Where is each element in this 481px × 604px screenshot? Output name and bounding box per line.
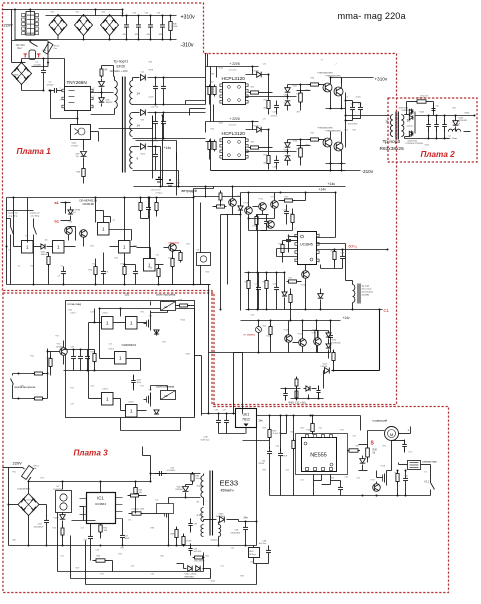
resistor R ucc4: [333, 250, 336, 262]
svg-text:1: 1: [130, 409, 133, 414]
svg-text:C3: C3: [18, 266, 20, 268]
svg-text:mma- mag 220a: mma- mag 220a: [338, 11, 407, 21]
wire ucc bottom verticals: [305, 289, 307, 310]
resistor R ucc1: [283, 199, 295, 202]
svg-text:VD33: VD33: [293, 141, 298, 143]
svg-text:R94: R94: [263, 470, 266, 472]
capacitor C top ee: [155, 471, 167, 476]
svg-text:ST150S20 ST150S20: ST150S20 ST150S20: [406, 143, 423, 145]
svg-text:R74: R74: [163, 342, 166, 344]
svg-text:R35: R35: [245, 282, 248, 284]
svg-text:C44: C44: [345, 477, 348, 479]
wire gates row3: [89, 398, 102, 400]
wire bottom rail ee: [9, 545, 257, 547]
wire below fan: [194, 188, 214, 190]
wire ee33 extra: [150, 456, 152, 474]
svg-text:1: 1: [26, 245, 29, 250]
wire ic1 fb link: [80, 506, 84, 508]
svg-text:VD15: VD15: [211, 581, 216, 583]
svg-text:1 Ом 5шт 1206: 1 Ом 5шт 1206: [131, 509, 146, 511]
IC1 UC3844: [87, 493, 116, 524]
svg-text:DD3.4: DD3.4: [103, 389, 108, 391]
board outline Plata 3: [3, 293, 449, 593]
diode VD9 out2: [133, 112, 140, 114]
svg-text:15v: 15v: [76, 156, 79, 158]
svg-text:C47: C47: [273, 112, 276, 114]
wire mosfet source: [168, 521, 170, 546]
transformer T4 sec2: [201, 525, 204, 537]
wire 14v lower: [291, 320, 341, 322]
button loop wires: [13, 373, 48, 375]
wire 555 bottom: [270, 495, 431, 497]
svg-text:R14: R14: [115, 258, 118, 260]
svg-text:VD10: VD10: [141, 154, 146, 156]
wire +14u rail: [134, 186, 346, 188]
resistor R3: [82, 167, 85, 179]
fan resistor: [215, 205, 227, 208]
resistor R40: [191, 472, 194, 483]
switch button: [11, 379, 14, 385]
wire opto to right: [91, 131, 99, 133]
svg-text:DD3.2: DD3.2: [103, 313, 108, 315]
svg-text:C21: C21: [141, 72, 144, 74]
resistor R24: [99, 523, 102, 534]
svg-text:Rел: Rел: [18, 47, 23, 50]
transistor VT11: [259, 203, 267, 211]
transformer T1 primary winding: [115, 81, 118, 109]
svg-text:C23: C23: [263, 64, 266, 66]
svg-text:VD43: VD43: [420, 112, 425, 114]
wire igbt collectors cell2: [330, 132, 332, 139]
resistor R fan2: [219, 191, 222, 202]
wire feedback long2: [71, 578, 211, 580]
wire long vertical v1: [205, 54, 207, 67]
svg-text:нагрузка: нагрузка: [169, 242, 180, 245]
wire bundle vertical vA: [208, 285, 210, 414]
capacitor C39: [188, 519, 193, 531]
svg-text:220V: 220V: [13, 461, 23, 466]
gate DD2.3: [115, 352, 127, 365]
svg-text:8: 8: [319, 234, 320, 236]
svg-text:VT10: VT10: [244, 203, 249, 205]
capacitor C46 edge: [283, 389, 288, 401]
wire cell2 mid: [268, 130, 270, 154]
resistor R1om: [130, 512, 143, 515]
svg-text:2: 2: [336, 64, 337, 66]
capacitor C48: [266, 546, 271, 558]
resistor R motor1: [396, 472, 399, 484]
svg-text:R12: R12: [91, 246, 94, 248]
wire left col: [293, 459, 295, 496]
hanging resistor mid rail 2: [155, 201, 158, 213]
svg-text:1N4148: 1N4148: [41, 254, 49, 256]
svg-text:R92: R92: [383, 446, 386, 448]
opto box ee33: [157, 504, 174, 514]
gate DD2.2: [126, 317, 138, 330]
svg-text:1: 1: [102, 227, 105, 232]
output diode VD40: [405, 114, 411, 116]
fuse FU2: [21, 466, 33, 480]
svg-text:15v: 15v: [73, 212, 76, 214]
boot diode VD cell1: [246, 74, 269, 76]
mosfet VT ee33: [168, 506, 170, 521]
filter cap C41: [426, 120, 431, 132]
relay RL1 contacts block: [22, 12, 39, 36]
svg-text:C40: C40: [177, 180, 180, 182]
wire relay top connect: [29, 10, 31, 12]
svg-text:C4: C4: [113, 220, 115, 222]
wire ladder v3: [176, 141, 178, 196]
gate DD1.4: [119, 241, 131, 254]
svg-text:DD-HEF4013B: DD-HEF4013B: [80, 199, 98, 203]
wire cluster links: [296, 391, 298, 399]
capacitor C mid3: [133, 267, 138, 279]
boot diode VD cell2: [246, 129, 269, 131]
transistor VT15: [299, 339, 307, 347]
svg-text:Тр-ток2: Тр-ток2: [362, 286, 370, 288]
svg-text:Ом: Ом: [54, 48, 58, 50]
transformer T4 core: [209, 471, 211, 536]
svg-text:R73: R73: [56, 336, 59, 338]
gate DD2.1: [102, 317, 114, 330]
transistor VT13 below ucc: [302, 271, 310, 279]
wire board inner: [99, 309, 101, 359]
transformer T4 EE33 primary: [201, 476, 204, 498]
wire 22V rail cell2: [206, 121, 259, 123]
svg-text:+14u: +14u: [164, 146, 172, 150]
svg-text:R38: R38: [151, 528, 154, 530]
wire vd29 drop: [323, 371, 325, 389]
svg-text:C41 10n 1kv: C41 10n 1kv: [151, 190, 161, 192]
resistor R31: [347, 449, 360, 452]
svg-text:R29: R29: [263, 428, 266, 430]
transformer T2 core: [395, 112, 397, 140]
wire ne555 left web: [286, 416, 288, 434]
svg-text:36: 36: [385, 120, 389, 124]
ground cluster caps: [156, 179, 163, 181]
svg-text:NTC: NTC: [41, 478, 46, 480]
resistor R30: [366, 446, 370, 459]
wire mid to ucc area: [194, 196, 241, 198]
svg-text:SB1: SB1: [21, 386, 25, 388]
capacitor C38: [160, 20, 165, 32]
svg-text:1u/1.6kV: 1u/1.6kV: [194, 551, 202, 553]
transistor VT 555b: [373, 484, 381, 492]
svg-text:VD38: VD38: [284, 95, 289, 97]
transformer T1 core: [122, 77, 124, 173]
svg-text:R37: R37: [289, 278, 292, 280]
svg-text:EE33: EE33: [220, 479, 239, 488]
wire out2 jog: [189, 109, 191, 116]
snubber resistor: [100, 67, 103, 78]
hanging resistor mid rail 1: [139, 201, 142, 213]
svg-text:R100 1Ом: R100 1Ом: [418, 98, 428, 100]
svg-text:VD51: VD51: [186, 354, 191, 356]
thermostat switch SA1: [10, 219, 12, 227]
svg-text:R49: R49: [211, 74, 214, 76]
relay contact switch: [30, 42, 38, 47]
svg-text:кнопка на горелке: кнопка на горелке: [15, 386, 36, 389]
transistor VT4 mid: [80, 230, 88, 238]
svg-text:C22 100n: C22 100n: [229, 70, 237, 72]
resistor 470 5w cell1: [299, 91, 303, 104]
wire dark return horiz: [332, 370, 380, 372]
wire board bottom stub: [120, 418, 122, 431]
resistor R mid5: [171, 257, 174, 269]
thermostat switch SA2: [33, 219, 35, 227]
resistor R mid2: [94, 265, 97, 277]
wire thermo connects: [7, 218, 11, 220]
wire mosfet drain: [168, 498, 170, 506]
svg-text:UC3845: UC3845: [300, 243, 313, 247]
resistor R42 load: [249, 548, 260, 558]
lower small cluster resistor: [295, 377, 298, 388]
svg-text:R4: R4: [26, 236, 28, 238]
capacitor C mid2: [101, 267, 106, 279]
wire m caps top: [64, 349, 88, 351]
svg-text:VT9: VT9: [81, 236, 84, 238]
wire TNY source down: [77, 111, 79, 119]
svg-text:47 ф0.3: 47 ф0.3: [197, 485, 204, 488]
svg-text:VD32: VD32: [293, 86, 298, 88]
wire gate row: [14, 246, 22, 248]
svg-text:C28: C28: [341, 253, 344, 255]
wire plata2 bottom: [405, 138, 450, 140]
wire ladder v1: [152, 116, 154, 179]
wire t4 sec out: [204, 519, 217, 521]
svg-text:100P: 100P: [125, 538, 130, 540]
capacitor C41b: [278, 449, 283, 461]
capacitor C motor: [402, 440, 407, 452]
svg-text:HCPL3120: HCPL3120: [222, 76, 246, 82]
svg-text:C50: C50: [436, 106, 439, 108]
wire motor connects: [368, 430, 385, 432]
bridge rectifier VD2 mains: [75, 15, 93, 36]
capacitor C1 bulk: [41, 66, 46, 78]
wire to main transformer: [346, 115, 390, 117]
zener VD7: [81, 152, 87, 157]
wire 555 v1: [280, 416, 282, 451]
svg-text:Тр-порт1: Тр-порт1: [114, 60, 129, 64]
svg-text:C24: C24: [283, 210, 286, 212]
capacitor C36b: [216, 416, 221, 428]
svg-text:220nF: 220nF: [259, 463, 265, 465]
svg-text:R46+ C32 + 80c: R46+ C32 + 80c: [289, 402, 307, 405]
svg-text:R31: R31: [291, 214, 294, 216]
wire AC vertical from 220V: [14, 10, 16, 41]
diode VD k3: [154, 410, 159, 414]
wire C1 run: [246, 309, 383, 311]
svg-text:K1.1: K1.1: [409, 452, 413, 454]
svg-text:2000НМ: 2000НМ: [362, 295, 370, 297]
input resistor R2 cell1: [213, 85, 216, 97]
svg-text:VT16: VT16: [312, 333, 317, 335]
wire feedback long3: [86, 584, 257, 586]
svg-text:K1: K1: [9, 250, 11, 252]
svg-text:C44: C44: [91, 386, 94, 388]
svg-text:CD4013B: CD4013B: [83, 202, 95, 206]
filter cap C42: [434, 120, 439, 132]
svg-text:VD31: VD31: [219, 123, 224, 125]
wire cd4013 outputs: [104, 216, 111, 218]
wire opto connections: [77, 119, 79, 125]
board outline mma-mag: [66, 301, 195, 418]
svg-text:C11: C11: [156, 255, 159, 257]
svg-text:R34: R34: [331, 251, 334, 253]
wire NTC to bridge: [47, 63, 49, 67]
svg-text:BC807: BC807: [57, 346, 64, 348]
capacitor C21: [120, 531, 125, 543]
svg-text:+14v: +14v: [319, 188, 327, 192]
svg-text:VD30: VD30: [219, 68, 224, 70]
wire feedback long1: [58, 571, 204, 573]
svg-text:C10: C10: [121, 13, 124, 15]
wire cap bank top rail: [46, 15, 177, 17]
wire ic1 top supply: [100, 482, 102, 493]
svg-text:C36: C36: [145, 13, 148, 15]
bridge rectifier VD1 mains: [49, 15, 67, 36]
svg-text:R55: R55: [264, 100, 267, 102]
svg-text:DD4: DD4: [69, 310, 73, 312]
resistor R lower2: [315, 329, 318, 341]
svg-text:Тр-пор3: Тр-пор3: [383, 139, 401, 145]
svg-text:R26: R26: [206, 272, 209, 274]
capacitor C2: [50, 88, 62, 93]
current transformer T3: [353, 285, 355, 303]
wire igbt emitters cell2: [330, 147, 332, 164]
transformer T4 sec1: [201, 508, 204, 522]
diode VD16 out: [220, 517, 225, 523]
wire igbt emitters cell1: [330, 92, 332, 109]
gate resistor R56 cell2: [309, 138, 321, 141]
igbt Q2 FGH40N60SFD: [334, 87, 343, 96]
svg-text:C17: C17: [81, 528, 84, 530]
svg-text:R15: R15: [134, 246, 137, 248]
wire ucc mids: [249, 230, 293, 232]
svg-text:EF20: EF20: [117, 65, 126, 69]
svg-text:ST150S20: ST150S20: [459, 120, 468, 122]
board outline Plata 2: [388, 98, 477, 162]
svg-text:термостат: термостат: [8, 213, 18, 215]
svg-text:VD22: VD22: [54, 518, 60, 520]
zener VD a1: [68, 210, 73, 214]
svg-text:C20: C20: [96, 550, 99, 552]
wire a1 b1 stubs: [61, 202, 71, 204]
resistor R m1: [93, 352, 96, 364]
wire gates row1: [89, 322, 102, 324]
wire bundle horiz: [209, 352, 243, 354]
svg-text:24v: 24v: [259, 419, 264, 423]
wire to opto u7: [62, 482, 64, 490]
svg-text:ТВСТ498ГС: ТВСТ498ГС: [348, 124, 359, 126]
wire mains down-left: [11, 10, 13, 63]
svg-text:C40: C40: [276, 446, 279, 448]
svg-text:5: 5: [94, 96, 95, 98]
inductor L2 out: [449, 129, 461, 131]
wire +14v rail ucc: [241, 192, 336, 194]
svg-text:R52: R52: [47, 358, 50, 360]
zener VD35: [326, 344, 331, 348]
transformer T2 secondary: [401, 115, 404, 137]
svg-text:R36: R36: [263, 282, 266, 284]
svg-text:HL2: HL2: [263, 326, 266, 328]
fan transistor VT1: [229, 199, 237, 207]
resistor R above 555: [311, 422, 314, 434]
wire ucc stub: [262, 211, 264, 215]
svg-text:ветродуй: ветродуй: [182, 189, 197, 193]
svg-text:+: +: [408, 429, 410, 433]
svg-text:CD4093US: CD4093US: [122, 343, 137, 347]
svg-text:VD39: VD39: [284, 150, 289, 152]
input resistor R2 cell2: [213, 140, 216, 152]
wire 555 top link: [331, 415, 361, 417]
wire k1: [399, 464, 408, 466]
wire AC top rail: [12, 9, 123, 11]
wire ne555 area link: [243, 440, 270, 442]
svg-text:R93: R93: [331, 478, 334, 480]
wire ic top cell1: [252, 67, 254, 75]
svg-text:mma-mag: mma-mag: [68, 302, 82, 306]
svg-text:/nнF 2шт: /nнF 2шт: [201, 440, 210, 442]
wire vt2: [55, 351, 60, 353]
svg-text:SF28: SF28: [149, 70, 154, 72]
input resistor R cell1: [208, 85, 211, 97]
svg-text:К2.1: К2.1: [425, 481, 430, 484]
wire igbt collectors cell1: [330, 78, 332, 84]
wire ee33 primary top: [151, 473, 201, 475]
diode VD10 out3: [133, 146, 140, 148]
wire lower cluster: [317, 346, 319, 353]
svg-text:R18: R18: [149, 268, 152, 270]
diode VD13: [183, 487, 189, 492]
wire AC second rail: [12, 40, 48, 42]
svg-text:4700u/35V: 4700u/35V: [231, 533, 241, 535]
capacitor C 555g: [338, 483, 343, 495]
svg-text:VT1: VT1: [237, 196, 240, 198]
wire extra ucc cluster: [249, 218, 275, 220]
svg-text:C42: C42: [231, 548, 234, 550]
switch K2.1: [430, 479, 432, 483]
resistor row R39: [129, 494, 141, 497]
gate resistor R56 cell1: [309, 83, 321, 86]
comb extra zener: [282, 292, 287, 296]
wire plata2 out plus: [416, 115, 475, 117]
svg-text:VT12: VT12: [271, 197, 276, 199]
svg-text:R22: R22: [169, 258, 172, 260]
wire mid col down1: [220, 215, 222, 285]
lower small cluster cap: [316, 386, 320, 398]
svg-text:VD6: VD6: [149, 62, 153, 64]
svg-text:VD8: VD8: [141, 120, 145, 122]
relay K2: [161, 302, 176, 311]
resistor R lower cluster: [332, 351, 335, 363]
gate DD1.5: [144, 259, 156, 272]
svg-text:1: 1: [106, 397, 109, 402]
svg-text:1: 1: [60, 88, 61, 90]
svg-text:27uF: 27uF: [283, 456, 288, 458]
wire mid section top rail: [7, 197, 131, 199]
svg-text:UE1: UE1: [243, 413, 250, 417]
svg-text:470u: 470u: [159, 34, 163, 36]
svg-text:КЦ405/КБРС: КЦ405/КБРС: [18, 489, 31, 491]
wire k3 wiring: [150, 393, 152, 400]
capacitor C10: [124, 20, 129, 32]
svg-text:VD50: VD50: [181, 320, 186, 322]
mosfet VT6: [150, 317, 152, 331]
hanging cap mid rail: [146, 203, 151, 215]
svg-text:C38: C38: [157, 13, 160, 15]
output diode VD41: [409, 115, 413, 119]
